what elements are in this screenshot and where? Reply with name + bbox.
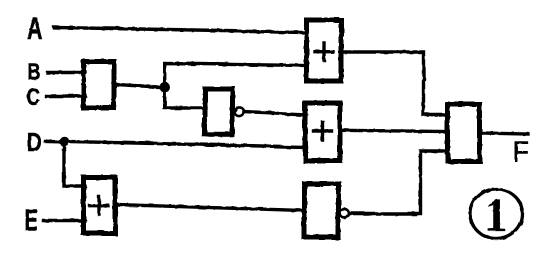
svg-text:1: 1 xyxy=(485,189,508,242)
svg-text:A: A xyxy=(27,10,43,46)
svg-text:C: C xyxy=(27,84,41,111)
svg-text:D: D xyxy=(27,127,42,157)
svg-text:F: F xyxy=(513,136,530,168)
svg-text:B: B xyxy=(28,59,41,85)
svg-text:E: E xyxy=(25,204,39,238)
